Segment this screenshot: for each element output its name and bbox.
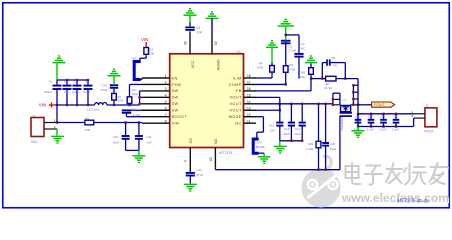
ground under output caps xyxy=(279,141,281,146)
resistor R7 xyxy=(326,76,336,81)
svg-text:1nF: 1nF xyxy=(197,31,203,35)
right bank bottom rail xyxy=(358,126,414,128)
ground under C10 C11 xyxy=(138,150,140,155)
svg-text:C14: C14 xyxy=(295,127,301,131)
svg-text:SW: SW xyxy=(172,108,179,113)
right bank top rail xyxy=(358,113,414,115)
svg-text:COMP: COMP xyxy=(229,82,242,87)
svg-text:1.49K: 1.49K xyxy=(306,147,314,151)
SW rail after L1 xyxy=(107,104,140,106)
big ground above C1 xyxy=(285,27,287,41)
IC bottom pin stubs 9 10 xyxy=(189,148,191,172)
resistor R6 xyxy=(85,120,94,125)
VIN rail wire xyxy=(56,104,58,106)
ground on AGND pin 19 xyxy=(206,17,219,19)
svg-text:J1: J1 xyxy=(32,114,36,118)
svg-text:R20: R20 xyxy=(308,142,314,146)
capacitor C1 xyxy=(285,41,287,45)
svg-text:13: 13 xyxy=(247,106,251,110)
capacitor C5 xyxy=(87,79,89,81)
IC right pin stubs 18-11 xyxy=(244,77,257,79)
svg-text:15: 15 xyxy=(247,93,251,97)
svg-text:SW: SW xyxy=(172,101,179,106)
svg-text:17: 17 xyxy=(247,81,251,85)
capacitor C6 xyxy=(56,80,58,86)
svg-text:R5: R5 xyxy=(289,63,293,67)
ground at JP2 xyxy=(259,152,265,154)
svg-text:18: 18 xyxy=(247,74,251,78)
SW bus vertical to pins 3 4 5 xyxy=(139,91,141,105)
svg-text:16: 16 xyxy=(247,87,251,91)
net flag POUT xyxy=(358,104,372,106)
capacitor C10 xyxy=(124,121,126,123)
svg-text:64K: 64K xyxy=(300,75,305,79)
svg-text:VIN: VIN xyxy=(39,103,46,108)
NC pin10 wire to bottom rail xyxy=(214,168,216,170)
svg-text:SW: SW xyxy=(172,88,179,93)
svg-text:22uF: 22uF xyxy=(294,132,301,136)
svg-text:NC: NC xyxy=(235,120,241,125)
svg-text:MBR0520: MBR0520 xyxy=(340,117,344,131)
svg-text:C26: C26 xyxy=(355,115,360,119)
svg-text:3: 3 xyxy=(165,87,167,91)
wire cap bank bottoms xyxy=(280,140,302,142)
svg-text:C9: C9 xyxy=(64,80,68,84)
svg-text:FSW: FSW xyxy=(172,82,182,87)
svg-text:10nF: 10nF xyxy=(101,88,108,92)
svg-text:www.elecfans.com: www.elecfans.com xyxy=(341,191,449,205)
resistor R3 (FSW) xyxy=(128,104,130,106)
svg-text:C20: C20 xyxy=(330,142,336,146)
svg-text:4: 4 xyxy=(165,93,167,97)
svg-text:100k: 100k xyxy=(132,92,139,96)
capacitor C27 xyxy=(370,113,372,115)
rung to rail right xyxy=(351,104,358,106)
svg-text:C13: C13 xyxy=(269,124,275,128)
svg-text:10R: 10R xyxy=(118,99,123,103)
capacitor C7 xyxy=(76,79,78,81)
capacitor C11 xyxy=(138,121,140,123)
svg-text:2.2uF: 2.2uF xyxy=(367,127,375,131)
svg-text:JP2: JP2 xyxy=(257,140,263,144)
svg-text:3.3nF: 3.3nF xyxy=(289,48,297,52)
capacitor C28 xyxy=(382,113,384,115)
resistor R4 xyxy=(271,62,273,65)
resistor R5 xyxy=(285,63,287,66)
vertical VIN rail to J1 pin1 line xyxy=(56,105,58,123)
svg-text:2: 2 xyxy=(165,81,167,85)
svg-text:BOOST: BOOST xyxy=(172,114,188,119)
svg-text:R8: R8 xyxy=(301,70,305,74)
op-amp U1 (converter IC MT7376) body xyxy=(170,54,244,148)
svg-text:C3: C3 xyxy=(132,108,136,112)
svg-text:VOUT: VOUT xyxy=(229,101,241,106)
svg-text:MODE: MODE xyxy=(229,114,242,119)
diode D1 xyxy=(341,106,351,112)
wire J1 pin1 to R6 and VIN pin8 xyxy=(56,121,58,123)
svg-text:5.6K: 5.6K xyxy=(289,67,295,71)
VOUT bus pins 15 14 13 xyxy=(256,96,280,98)
capacitor C4 xyxy=(189,22,191,27)
IC top pin stubs 20 19 xyxy=(189,31,191,53)
svg-text:100nF: 100nF xyxy=(44,90,53,94)
svg-text:SS: SS xyxy=(188,138,193,144)
svg-text:47nF: 47nF xyxy=(196,173,203,177)
connector J2 POUT xyxy=(425,108,437,127)
ground at J1 pin2 xyxy=(56,129,58,136)
wire VIN to R2 xyxy=(145,42,147,48)
svg-text:22uF: 22uF xyxy=(84,90,91,94)
svg-text:7: 7 xyxy=(165,113,167,117)
svg-text:9: 9 xyxy=(184,160,188,162)
IC left pin stubs 1-8 xyxy=(142,77,170,79)
svg-text:C16: C16 xyxy=(102,83,108,87)
inductor L1 xyxy=(95,103,107,106)
ground under C12 xyxy=(184,183,197,185)
snubber: resistor R1 + capacitor C16 to ground xyxy=(113,104,115,106)
svg-text:U1: U1 xyxy=(237,50,241,54)
svg-text:C8: C8 xyxy=(331,56,335,60)
svg-text:1uF: 1uF xyxy=(270,128,275,132)
svg-text:C5: C5 xyxy=(85,80,89,84)
svg-text:10: 10 xyxy=(209,157,213,161)
svg-text:8: 8 xyxy=(165,119,167,123)
svg-text:2.2nF: 2.2nF xyxy=(72,90,80,94)
svg-text:AGND: AGND xyxy=(215,59,220,70)
svg-text:EN: EN xyxy=(172,75,178,80)
input ground (top of cap bank) xyxy=(53,62,66,64)
svg-text:2.2uF: 2.2uF xyxy=(392,127,400,131)
svg-text:5: 5 xyxy=(165,100,167,104)
svg-text:11: 11 xyxy=(247,119,251,123)
svg-text:MODE: MODE xyxy=(256,145,265,149)
wire COMP pin17 xyxy=(256,83,286,85)
MODE pin12 wire to JP2 xyxy=(256,116,263,118)
svg-text:61.9K: 61.9K xyxy=(324,86,332,90)
svg-text:R6: R6 xyxy=(85,116,89,120)
wire FB pin16 xyxy=(256,90,311,92)
svg-text:ILIM: ILIM xyxy=(233,75,242,80)
VOUT rail wire xyxy=(256,103,333,105)
svg-text:C6: C6 xyxy=(49,80,53,84)
svg-text:6: 6 xyxy=(165,106,167,110)
wire diode leg to bottom rail xyxy=(339,116,341,170)
ladder rungs to POUT node xyxy=(352,85,354,105)
svg-text:1nF: 1nF xyxy=(147,141,152,145)
svg-text:14: 14 xyxy=(247,100,251,104)
svg-text:10uF: 10uF xyxy=(113,141,120,145)
capacitor C14 xyxy=(301,103,303,105)
svg-text:1nF: 1nF xyxy=(64,90,69,94)
svg-text:VOUT: VOUT xyxy=(229,95,241,100)
svg-text:MT7376 dc-dc: MT7376 dc-dc xyxy=(397,199,429,205)
svg-text:L1 2.2uH: L1 2.2uH xyxy=(87,107,99,111)
svg-text:POUT: POUT xyxy=(374,103,385,107)
svg-text:10R: 10R xyxy=(85,128,91,132)
ground under right bank xyxy=(357,127,359,131)
svg-text:0.1uF: 0.1uF xyxy=(133,113,141,117)
svg-text:C12: C12 xyxy=(196,168,202,172)
svg-text:C29: C29 xyxy=(393,115,398,119)
capacitor C19 below diode xyxy=(340,112,352,114)
svg-text:C11: C11 xyxy=(146,135,152,139)
svg-text:1: 1 xyxy=(165,74,167,78)
svg-text:10k: 10k xyxy=(149,52,154,56)
mini ladder C17 xyxy=(333,92,340,94)
bootstrap capacitor C3 xyxy=(127,109,143,111)
ground above R4 xyxy=(271,48,273,62)
svg-text:20: 20 xyxy=(183,41,187,45)
svg-text:NC: NC xyxy=(213,138,218,144)
svg-text:SW: SW xyxy=(172,95,179,100)
capacitor C20 leg xyxy=(324,103,326,105)
wire ILIM pin18 xyxy=(256,77,272,79)
FB node wire xyxy=(310,77,312,79)
svg-text:C7: C7 xyxy=(74,80,78,84)
capacitor C26 xyxy=(357,114,359,120)
branch wire to C2 (NC) xyxy=(285,34,287,36)
wire R2 to JP1 xyxy=(145,54,147,58)
svg-text:VIN: VIN xyxy=(172,120,180,125)
svg-text:C17: C17 xyxy=(342,98,348,102)
svg-text:C15: C15 xyxy=(284,127,290,131)
svg-text:C2: C2 xyxy=(301,42,305,46)
svg-text:2.2uF: 2.2uF xyxy=(379,127,387,131)
ground above R8 xyxy=(305,62,317,64)
ground above C4 (VCC) xyxy=(184,14,197,16)
capacitor C15 xyxy=(290,103,292,105)
jumper JP2 xyxy=(253,139,259,153)
svg-text:VIN: VIN xyxy=(141,37,148,42)
svg-text:C10: C10 xyxy=(113,135,119,139)
capacitor C9 xyxy=(66,79,68,81)
svg-text:FB: FB xyxy=(236,88,242,93)
J2 pin stubs xyxy=(414,113,425,115)
resistor R20 leg xyxy=(317,103,319,105)
resistor R8 xyxy=(310,63,312,67)
svg-text:22uF: 22uF xyxy=(330,147,337,151)
svg-text:22uF: 22uF xyxy=(283,132,290,136)
wire JP1 to pin1 EN xyxy=(141,79,142,81)
svg-text:J2: J2 xyxy=(425,104,429,108)
svg-text:19: 19 xyxy=(214,41,218,45)
capacitor C2 NC xyxy=(294,53,303,55)
svg-text:VOUT: VOUT xyxy=(229,108,241,113)
connector J1 xyxy=(31,118,44,137)
svg-text:12: 12 xyxy=(247,113,251,117)
capacitor C29 xyxy=(395,113,397,115)
svg-text:MT7376: MT7376 xyxy=(219,151,232,155)
svg-text:POUT: POUT xyxy=(424,130,433,134)
capacitor C13 xyxy=(279,104,281,123)
cap bank top rail xyxy=(57,79,88,81)
svg-text:100k: 100k xyxy=(256,66,263,70)
svg-text:C4: C4 xyxy=(196,26,200,30)
capacitor C8 NC bridging R7 xyxy=(321,77,323,79)
svg-text:VCC: VCC xyxy=(190,60,195,68)
svg-text:VIN: VIN xyxy=(31,140,37,144)
wire cap bottoms join xyxy=(126,149,139,151)
svg-text:C27: C27 xyxy=(368,115,373,119)
capacitor C12 (SS) xyxy=(189,171,191,173)
resistor R2 xyxy=(144,48,149,55)
J1 pin stubs xyxy=(44,122,57,124)
svg-text:C28: C28 xyxy=(380,115,385,119)
